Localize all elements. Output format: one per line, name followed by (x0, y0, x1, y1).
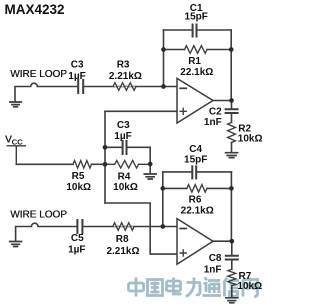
wire: feedback1 top with gap for C1 (164, 29, 232, 31)
svg-text:10kΩ: 10kΩ (238, 134, 263, 145)
wire: feedback2 right vertical (230, 172, 232, 241)
svg-text:VCC: VCC (5, 135, 23, 147)
svg-text:22.1kΩ: 22.1kΩ (180, 67, 213, 78)
wire: C3 to R3 to U1 minus input (83, 86, 177, 88)
capacitor C4 (192, 166, 196, 178)
svg-text:C8: C8 (209, 253, 222, 264)
wire: row1 input with loop (15, 83, 78, 101)
resistor R2 (228, 122, 236, 142)
ground (226, 153, 238, 158)
wire: row2 input with loop (16, 223, 78, 241)
resistor R3 (113, 83, 136, 91)
ground (226, 298, 238, 303)
svg-text:C3: C3 (117, 120, 130, 131)
node: feedback2 at U2 minus (160, 224, 165, 229)
wire: U2 output (213, 240, 232, 242)
wire: feedback1 right vertical (230, 30, 232, 101)
wire: C8 to R7 (231, 260, 233, 270)
wire: U1 output (213, 100, 232, 102)
node: feedback1 right on R1 (229, 47, 234, 52)
resistor R4 (105, 161, 150, 169)
svg-text:2.21kΩ: 2.21kΩ (106, 246, 139, 257)
wire: U1 plus input (105, 110, 177, 112)
capacitor C2 (226, 109, 238, 113)
svg-text:R4: R4 (118, 172, 131, 183)
svg-text:22.1kΩ: 22.1kΩ (181, 206, 214, 217)
ground (10, 242, 22, 247)
svg-text:1µF: 1µF (114, 131, 131, 142)
svg-text:R6: R6 (189, 194, 202, 205)
svg-text:C3: C3 (71, 60, 84, 71)
wire: R5 to node (92, 163, 106, 165)
node: feedback2 left on R6 (160, 186, 165, 191)
wire: bias to U2 plus (105, 203, 177, 254)
wire: C3b branch top (105, 147, 150, 164)
svg-text:15pF: 15pF (184, 154, 207, 165)
svg-text:1nF: 1nF (204, 264, 222, 275)
capacitor C3 (78, 80, 83, 93)
wire: C2 to R2 (231, 113, 233, 122)
op-amp U1 (177, 78, 213, 123)
wire: C5 to R8 to U2 minus (82, 226, 177, 228)
svg-text:C2: C2 (209, 107, 222, 118)
resistor R5 (73, 161, 92, 169)
capacitor C8 (226, 256, 238, 260)
node: feedback1 at U1 minus (161, 84, 166, 89)
wire: output to C2 (231, 101, 233, 110)
svg-text:10kΩ: 10kΩ (66, 182, 91, 193)
resistor R7 (228, 269, 236, 286)
capacitor C5 (77, 220, 82, 233)
node: R5/R4 junction (103, 162, 108, 167)
wire: R4 to ground (149, 164, 151, 173)
wire: feedback2 R6 branch (163, 187, 232, 189)
node: U1 output (229, 98, 234, 103)
ground (10, 102, 21, 107)
svg-text:MAX4232: MAX4232 (5, 2, 65, 17)
wire: bias node vertical line (104, 111, 106, 203)
resistor R8 (113, 223, 134, 231)
Vcc terminal (7, 146, 25, 165)
resistor R6 (187, 185, 207, 193)
svg-text:1µF: 1µF (68, 245, 85, 256)
node A: feedback1 left on R1 (161, 47, 166, 52)
op-amp U2 (177, 219, 213, 265)
ground (144, 174, 156, 179)
wire: feedback1 left vertical (163, 30, 165, 87)
wire: Vcc to R5 (16, 163, 73, 165)
svg-text:R7: R7 (239, 271, 252, 282)
wire: R2 to ground (231, 143, 233, 153)
node: U2 output (229, 239, 234, 244)
resistor R1 (185, 46, 208, 54)
svg-text:10kΩ: 10kΩ (237, 281, 262, 292)
wire: feedback2 left vertical (162, 172, 164, 227)
node: R4 right junction (148, 162, 153, 167)
svg-text:1nF: 1nF (204, 117, 222, 128)
wire: output to C8 (231, 241, 233, 256)
node: feedback2 right on R6 (229, 186, 234, 191)
svg-text:15pF: 15pF (185, 12, 208, 23)
node: C3b tap (103, 145, 108, 150)
wire: R7 to ground (231, 286, 233, 297)
capacitor C1 (193, 25, 197, 37)
svg-text:R3: R3 (117, 60, 130, 71)
svg-text:R1: R1 (188, 56, 201, 67)
svg-text:R5: R5 (72, 171, 85, 182)
svg-text:WIRE LOOP: WIRE LOOP (10, 69, 67, 80)
wire: feedback2 top with gap for C4 (163, 171, 232, 173)
svg-text:1µF: 1µF (68, 71, 85, 82)
svg-text:2.21kΩ: 2.21kΩ (109, 71, 142, 82)
svg-text:C5: C5 (71, 233, 84, 244)
svg-text:10kΩ: 10kΩ (113, 182, 138, 193)
wire: feedback1 R1 branch (164, 49, 232, 51)
watermark 中国电力通信网 (129, 278, 258, 297)
svg-text:WIRE LOOP: WIRE LOOP (10, 210, 67, 221)
svg-text:R8: R8 (116, 234, 129, 245)
capacitor C3b (123, 141, 127, 154)
